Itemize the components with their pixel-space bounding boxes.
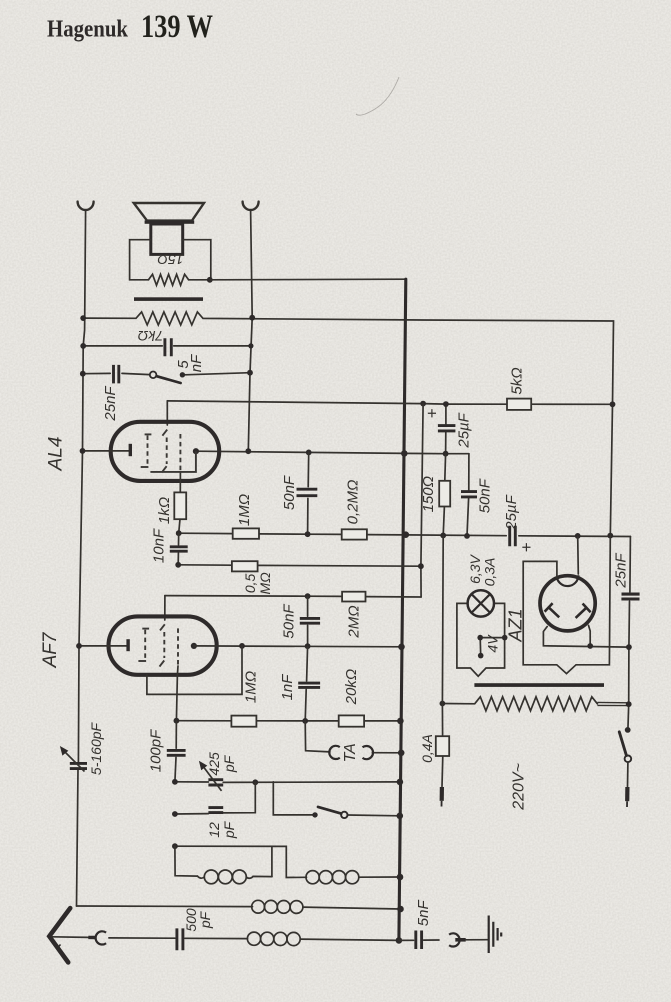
wire: AF7 cathode line to 1MΩ wire xyxy=(176,675,177,721)
wire: antenna line xyxy=(52,937,248,939)
svg-text:TA: TA xyxy=(342,743,359,762)
wire: coil L1 right riser xyxy=(271,846,273,876)
wire: coil line xyxy=(175,846,305,877)
resistor 1MΩ (AF7 grid leak) xyxy=(231,716,256,727)
resistor 20kΩ xyxy=(339,715,364,726)
AL4 grid 1 (dashed) xyxy=(145,433,152,435)
tube AZ1 envelope xyxy=(540,576,595,631)
wire: AF7 grid riser xyxy=(164,596,166,620)
svg-text:220V~: 220V~ xyxy=(511,763,528,811)
wire: AF7 screen loop xyxy=(147,646,242,695)
wire: AZ1 filament winding rectangle xyxy=(523,536,610,674)
wire: 15Ω node to main rail xyxy=(210,278,406,281)
resistor 1kΩ (AL4 cathode) xyxy=(174,492,186,519)
wire: AF7 grid line (2MΩ) xyxy=(165,596,421,597)
capacitor 25nF xyxy=(114,365,119,384)
capacitor 50nF (AF7 grid-anode) xyxy=(307,596,309,646)
resistor 0,2MΩ xyxy=(342,529,367,539)
node AZ1 riser / line xyxy=(575,533,581,539)
node rail / line xyxy=(397,718,404,725)
AL4 anode xyxy=(193,448,199,454)
wire: AL4 grid riser xyxy=(166,401,168,425)
node rail end / antenna line xyxy=(396,937,403,944)
antenna socket xyxy=(96,931,107,944)
AF7 third electrode (dashed) xyxy=(177,628,179,664)
capacitor 12pF xyxy=(208,808,223,813)
wire: to ground xyxy=(466,939,488,941)
node primary right / 25nF line xyxy=(626,701,632,707)
svg-text:0,4A: 0,4A xyxy=(419,734,435,763)
svg-text:AF7: AF7 xyxy=(40,631,61,668)
node 1nF / line xyxy=(302,718,308,724)
resistor 0,5MΩ xyxy=(232,561,258,571)
wire: AF7 anode line xyxy=(194,645,402,648)
capacitor 25nF (right) xyxy=(621,594,639,599)
svg-text:1MΩ: 1MΩ xyxy=(242,671,259,703)
AF7 grid 1 (dashed) xyxy=(142,628,149,630)
node 1kΩ / line xyxy=(176,530,182,536)
earth socket xyxy=(449,933,460,946)
svg-text:139 W: 139 W xyxy=(141,9,213,45)
antenna xyxy=(49,908,70,962)
wire: 4V tap xyxy=(480,638,504,656)
capacitor 10nF xyxy=(177,533,180,565)
terminal hook left xyxy=(78,202,94,210)
node speaker line / 7kΩ wire xyxy=(249,315,255,321)
wire: primary right lead (double) xyxy=(597,702,628,705)
node AZ1 right anode xyxy=(587,643,593,649)
resistor 2MΩ xyxy=(342,592,365,602)
node anode line / 50nF xyxy=(306,450,312,456)
choke core bar xyxy=(134,297,203,301)
AF7 grid 2 (dashed, from top) xyxy=(160,624,165,630)
node grid line / 25µF xyxy=(443,401,449,407)
node 425pF line / 12pF riser xyxy=(252,779,258,785)
speaker gap bar xyxy=(145,220,195,223)
lamp xyxy=(468,590,494,616)
resistor 5kΩ xyxy=(507,399,531,410)
capacitor 50nF (AL4 anode-ground) xyxy=(308,452,309,534)
wire: band switch branch xyxy=(273,782,400,816)
svg-text:25nF: 25nF xyxy=(102,386,119,422)
fuse 0,4A xyxy=(436,736,449,756)
svg-text:AL4: AL4 xyxy=(46,437,67,472)
node anode line / rail xyxy=(401,450,408,457)
node rail / TA xyxy=(398,750,405,757)
wire: TA branch xyxy=(305,721,401,753)
svg-text:5kΩ: 5kΩ xyxy=(508,367,525,394)
wire: B+ distribution line (1MΩ/0.2MΩ/25µF) xyxy=(179,533,631,536)
AL4 cathode line (dashed) xyxy=(179,434,181,471)
svg-text:10nF: 10nF xyxy=(150,528,167,563)
AZ1 anode right xyxy=(576,604,591,618)
node 1nF riser xyxy=(305,643,311,649)
resistor 7kΩ field coil (zigzag) xyxy=(83,312,406,325)
wire: AL4 anode line xyxy=(196,451,469,454)
capacitor 1nF xyxy=(305,646,307,721)
right rail xyxy=(406,320,614,536)
capacitor 5-160pF (tuning) xyxy=(70,763,87,768)
svg-text:5nF: 5nF xyxy=(415,900,432,927)
node grid line / bias riser xyxy=(420,401,426,407)
wire: mains left / fuse xyxy=(442,535,443,786)
svg-text:1kΩ: 1kΩ xyxy=(156,497,173,524)
node rail / L2 xyxy=(397,874,404,881)
capacitor 5nF xyxy=(165,338,171,356)
svg-text:12: 12 xyxy=(206,822,222,838)
wire: 12pF riser xyxy=(223,782,255,813)
svg-text:25nF: 25nF xyxy=(612,553,629,589)
svg-text:4V: 4V xyxy=(484,634,500,653)
lamp rectangle / 6.3V winding xyxy=(457,603,505,676)
wire: speaker/anode line xyxy=(248,210,252,451)
switch S1 (tone) xyxy=(150,372,157,379)
capacitor 5nF (earth) xyxy=(399,939,439,941)
svg-text:MΩ: MΩ xyxy=(257,572,273,595)
tube AF7 xyxy=(109,616,217,674)
svg-text:0,3A: 0,3A xyxy=(482,558,498,587)
antenna plug xyxy=(88,936,96,939)
resistor 1MΩ xyxy=(233,528,259,538)
AF7 cathode lead xyxy=(79,645,127,647)
wire: voice-coil loop xyxy=(130,240,211,280)
node rail / switch xyxy=(397,813,404,820)
wire: left rail xyxy=(77,210,86,906)
wire: bias line 0,5MΩ xyxy=(178,565,421,566)
node tone switch / speaker line xyxy=(247,370,253,376)
svg-text:25µF: 25µF xyxy=(503,494,520,530)
node anode line / 150Ω xyxy=(443,451,449,457)
AL4 cathode lead xyxy=(82,450,129,452)
wire: 425pF line xyxy=(175,781,400,784)
node right rail / 5kΩ xyxy=(610,401,616,407)
transformer core xyxy=(474,683,604,687)
node 50nF / grid line xyxy=(305,593,311,599)
svg-text:7kΩ: 7kΩ xyxy=(137,328,163,344)
ground xyxy=(489,916,502,954)
svg-text:0,5: 0,5 xyxy=(242,573,258,593)
wire: 1MΩ / 20kΩ line xyxy=(176,720,400,722)
svg-text:+: + xyxy=(422,408,441,418)
svg-text:pF: pF xyxy=(197,910,213,929)
node rail / anode line xyxy=(398,644,405,651)
transformer primary (zigzag) xyxy=(442,697,597,711)
switch S3 (mains) xyxy=(625,727,631,733)
main rail (chassis bus) xyxy=(399,279,406,940)
inductor L4 xyxy=(252,900,265,913)
switch S2 (band) xyxy=(312,812,317,817)
inductor L2 xyxy=(305,876,306,878)
svg-text:1MΩ: 1MΩ xyxy=(236,494,253,526)
resistor 150Ω xyxy=(443,454,445,536)
node 150Ω / line xyxy=(440,533,446,539)
socket TA left xyxy=(329,746,340,759)
capacitor 100pF xyxy=(175,721,177,782)
node primary left xyxy=(440,701,446,707)
AZ1 anode left xyxy=(545,603,560,617)
inductor L3 (antenna coil) xyxy=(247,932,260,945)
tube AL4 xyxy=(111,422,220,481)
socket TA right xyxy=(363,746,374,759)
node 50nF / line xyxy=(305,531,311,537)
AL4 grid 2 (dashed, from top) xyxy=(162,430,167,436)
svg-text:AZ1: AZ1 xyxy=(505,608,525,642)
capacitor 25µF (first electrolytic) xyxy=(445,404,447,454)
svg-text:5-160pF: 5-160pF xyxy=(88,721,104,775)
resistor 15Ω (zigzag) xyxy=(149,274,189,285)
wire: left rail bottom / L4 line xyxy=(77,905,253,908)
node 5nF / speaker line xyxy=(248,343,253,348)
svg-text:50nF: 50nF xyxy=(476,478,493,513)
svg-text:425: 425 xyxy=(206,752,222,776)
node rail / L4 xyxy=(397,906,404,913)
terminal hook right xyxy=(243,202,259,210)
node rail / 425pF line xyxy=(397,779,404,786)
faint scan streak xyxy=(356,77,399,115)
svg-text:20kΩ: 20kΩ xyxy=(343,669,360,706)
node left rail / 5nF wire xyxy=(80,343,86,349)
node screen loop xyxy=(239,643,245,649)
capacitor 425pF (trimmer) xyxy=(208,780,223,785)
node left rail / 25nF xyxy=(80,371,86,377)
node 50nF / line xyxy=(464,533,470,539)
wire: AZ1 cathode riser xyxy=(577,536,580,574)
wire: 5nF branch xyxy=(83,345,251,347)
earth plug xyxy=(455,938,465,942)
svg-text:pF: pF xyxy=(221,820,237,839)
AZ1 filament arc xyxy=(557,575,579,586)
wire: AL4 grid / 5kΩ line xyxy=(167,401,612,404)
capacitor 25µF (cathode electrolytic, horizontal) xyxy=(510,526,516,547)
svg-text:pF: pF xyxy=(221,754,237,773)
node right rail / line xyxy=(607,533,613,539)
wire: AZ1 anode leads xyxy=(543,625,629,647)
svg-text:15Ω: 15Ω xyxy=(157,251,184,267)
capacitor 500pF xyxy=(177,928,183,950)
svg-text:25µF: 25µF xyxy=(455,412,472,448)
mains plug pin left xyxy=(440,787,444,801)
svg-text:50nF: 50nF xyxy=(280,604,297,639)
wire: 25nF branch (right) xyxy=(628,537,630,728)
wire: 25nF / tone switch branch xyxy=(83,373,250,375)
mains plug pin right xyxy=(625,787,629,801)
inductor L1 xyxy=(198,876,205,878)
speaker magnet box xyxy=(151,224,183,254)
wire: 12pF line xyxy=(175,813,209,815)
svg-text:100pF: 100pF xyxy=(148,729,165,772)
svg-text:2MΩ: 2MΩ xyxy=(345,605,362,638)
wire: bias riser xyxy=(421,404,423,597)
speaker cone xyxy=(134,203,204,221)
svg-text:1nF: 1nF xyxy=(279,674,296,701)
node rail / line xyxy=(403,531,410,538)
node anode line / speaker line xyxy=(245,448,251,454)
node speaker/B+ xyxy=(207,277,213,283)
svg-text:Hagenuk: Hagenuk xyxy=(47,16,129,42)
node 25nF bottom xyxy=(626,644,632,650)
svg-text:0,2MΩ: 0,2MΩ xyxy=(344,480,361,525)
svg-text:+: + xyxy=(517,542,536,552)
svg-text:nF: nF xyxy=(188,354,205,372)
svg-text:50nF: 50nF xyxy=(281,475,298,510)
node left rail / 7kΩ xyxy=(80,315,86,321)
wire: coil L1 left riser xyxy=(175,846,198,876)
capacitor 50nF (150Ω bypass) xyxy=(467,454,469,536)
AF7 anode xyxy=(191,643,197,649)
